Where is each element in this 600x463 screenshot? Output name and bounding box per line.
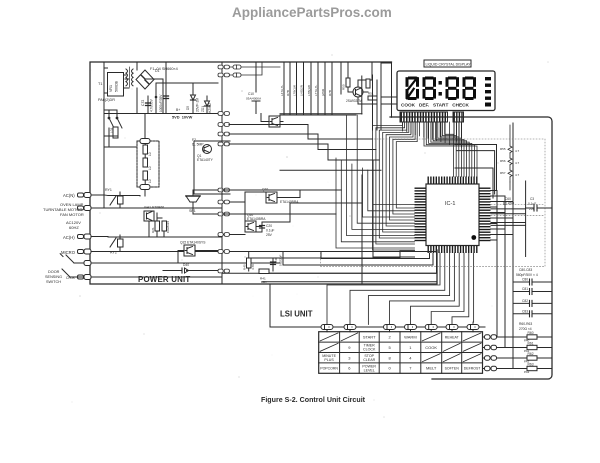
svg-text:2SA933TM: 2SA933TM: [346, 99, 362, 103]
wire mid rail2: [280, 62, 341, 94]
wire relay RY1 row: [116, 196, 140, 209]
capacitor C60 snubber: [118, 192, 124, 208]
dashed panel boundary: [321, 139, 546, 266]
connector matrix row 1: [483, 345, 514, 349]
diode D71: [344, 325, 356, 330]
buzzer SP1: [186, 196, 200, 208]
svg-text:POPCORN: POPCORN: [320, 367, 338, 371]
svg-text:C81: C81: [522, 287, 528, 291]
resistor R61: [513, 345, 552, 349]
svg-text:LIQUID CRYSTAL DISPLAY: LIQUID CRYSTAL DISPLAY: [426, 63, 472, 67]
transistor Q1 ETA140TY: [203, 145, 212, 154]
wire diode to matrix: [430, 330, 432, 332]
transformer T1 windings: [126, 67, 133, 87]
LCD pin header: [400, 112, 448, 122]
svg-text:20V/F-2M: 20V/F-2M: [196, 98, 200, 112]
label OVEN LAMP TURNTABLE MOTOR FAN MOTOR: [43, 202, 84, 217]
node B+: [176, 108, 180, 112]
label DOOR SENSING SWITCH: [45, 270, 62, 284]
svg-text:PA0: PA0: [524, 339, 530, 343]
svg-text:500ΩB: 500ΩB: [115, 80, 119, 92]
svg-text:C62/R22: C62/R22: [166, 221, 170, 233]
resistor R13: [143, 171, 148, 187]
svg-text:C72: C72: [141, 100, 145, 106]
wire transistor cluster top: [348, 62, 377, 115]
svg-text:560pF/50V × 4: 560pF/50V × 4: [516, 273, 538, 277]
label CH-B: [66, 276, 75, 280]
svg-text:5VD 10VW: 5VD 10VW: [172, 115, 193, 120]
resistor R12: [143, 158, 148, 167]
diode D40: [182, 268, 189, 273]
LCD drive resistor column: [280, 62, 332, 115]
wire collector vertical: [491, 181, 526, 257]
transistor Q10 ETA140BRA: [266, 192, 277, 203]
wire right bus verticals: [497, 123, 513, 369]
wire IC bottom left links: [269, 252, 437, 273]
matrix diode row wire: [270, 326, 485, 328]
svg-text:R56: R56: [500, 159, 506, 163]
svg-text:4.7u/35V: 4.7u/35V: [150, 98, 154, 112]
svg-text:R57: R57: [500, 171, 506, 175]
svg-text:L7B(1W: L7B(1W: [307, 85, 311, 96]
bridge rectifier D1: [136, 70, 154, 89]
connector matrix row 3: [483, 366, 514, 370]
label VR1 500ohm: [109, 80, 119, 92]
label MICRO: [61, 250, 76, 255]
capacitor C80: [513, 279, 552, 285]
label PA0-PA3 ports: [524, 339, 530, 375]
transistor Q20 ETA140BRA: [245, 221, 256, 232]
transistor Q50 2SA933TM: [353, 87, 363, 97]
wire cluster to LCD: [381, 63, 397, 104]
svg-text:4.7K: 4.7K: [251, 263, 255, 270]
power unit frame: [90, 62, 437, 284]
relay box RY: [194, 141, 230, 194]
resistor chain R55-R57: [508, 125, 512, 190]
IC-1 pin1 dot: [471, 235, 476, 240]
diode D73: [405, 325, 417, 330]
transformer T1 box VR1: [108, 73, 124, 97]
resistor R52: [366, 79, 370, 88]
svg-text:F1–04 SH660×4: F1–04 SH660×4: [150, 67, 178, 71]
svg-text:L7TA,7L: L7TA,7L: [314, 85, 318, 96]
capacitor C3 symbol: [526, 205, 552, 211]
svg-text:R55: R55: [500, 147, 506, 151]
LCD display module: [397, 71, 495, 111]
svg-text:R7B: R7B: [328, 90, 332, 96]
svg-text:LHG(2N: LHG(2N: [299, 85, 303, 96]
resistor array box: [137, 141, 159, 187]
keyboard matrix table: [319, 332, 483, 374]
wire comb2 down: [454, 122, 462, 147]
wire 5V rail: [104, 113, 222, 115]
wire long horizontals lower left: [222, 190, 341, 214]
svg-text:L7B(1W: L7B(1W: [292, 85, 296, 96]
svg-text:R60-R63: R60-R63: [519, 322, 532, 326]
relay RY2: [110, 251, 117, 255]
svg-text:AC(H): AC(H): [63, 235, 75, 240]
wire array bottom: [144, 114, 146, 197]
wire Q10 connections: [222, 190, 300, 221]
svg-text:AC(N): AC(N): [63, 193, 75, 198]
svg-text:C60: C60: [505, 197, 511, 201]
LSI unit right frame: [390, 117, 552, 379]
resistor R40 4.7k: [247, 258, 252, 268]
wire switch leads: [104, 110, 148, 147]
svg-text:L4TA,7L: L4TA,7L: [280, 85, 284, 96]
connector top of array: [140, 139, 150, 190]
svg-text:MICRO: MICRO: [61, 250, 76, 255]
wire bridge to rails: [125, 62, 163, 114]
wire diode to matrix: [472, 330, 474, 332]
svg-text:LEVEL: LEVEL: [364, 369, 375, 373]
scan noise speckles: [71, 54, 548, 417]
wire door row: [91, 263, 280, 277]
label D1: [155, 69, 160, 73]
svg-text:CLEAR: CLEAR: [363, 358, 375, 362]
wire mid rail: [222, 62, 356, 115]
svg-text:E0.45M: E0.45M: [503, 202, 514, 206]
svg-text:PLUS: PLUS: [324, 358, 334, 362]
svg-text:T1: T1: [98, 82, 102, 86]
svg-text:CLOCK: CLOCK: [363, 348, 376, 352]
svg-text:4.7: 4.7: [515, 149, 520, 153]
svg-text:Figure S-2. Control Unit Circu: Figure S-2. Control Unit Circuit: [261, 396, 366, 404]
diode D75: [446, 325, 458, 330]
svg-text:MELT: MELT: [426, 366, 437, 371]
transistor Q22 ETA140SYS: [184, 245, 195, 256]
IC-1 right pins: [479, 188, 491, 242]
svg-text:D5: D5: [186, 106, 190, 110]
svg-text:B+: B+: [176, 108, 180, 112]
capacitor C73 4.7u/35V: [155, 83, 157, 114]
label F1-04 SH660x4: [150, 67, 178, 71]
fuse F2 label: [192, 138, 204, 147]
connector matrix row 2: [483, 356, 514, 360]
IC-1 left pins: [415, 188, 427, 242]
resistor R22: [162, 221, 167, 231]
svg-text:25V: 25V: [266, 233, 273, 237]
wire bus connector to LSI crossing: [229, 125, 381, 171]
svg-text:SENSING: SENSING: [45, 275, 62, 279]
svg-text:60HZ: 60HZ: [69, 225, 79, 230]
svg-text:GH1 ST0B66: GH1 ST0B66: [144, 206, 164, 210]
wire bus IC right: [491, 191, 514, 241]
wire diode to matrix: [349, 330, 351, 332]
LCD digit 3: [446, 77, 460, 101]
resistor R62: [513, 356, 552, 360]
wire Q22 connections: [163, 251, 222, 271]
resistor R60: [513, 335, 552, 339]
connector CN-A column: [218, 62, 229, 284]
svg-text:0.1uF: 0.1uF: [266, 229, 274, 233]
svg-text:L01: L01: [110, 127, 114, 133]
svg-text:C80-C83: C80-C83: [519, 268, 532, 272]
wire bus LCD right group: [424, 122, 477, 177]
svg-text:L0: L0: [148, 179, 152, 183]
wire AC(H) row: [91, 236, 222, 239]
wire top verticals to bundle: [280, 63, 381, 130]
svg-text:ETA140BRA: ETA140BRA: [247, 217, 266, 221]
label LIQUID CRYSTAL DISPLAY: [424, 60, 471, 67]
wire transistor cluster: [149, 213, 164, 237]
wire transformer primary: [104, 62, 129, 193]
capacitor C3: [528, 197, 536, 211]
svg-text:LSI UNIT: LSI UNIT: [280, 310, 313, 319]
node AC(N) terminal: [78, 193, 92, 198]
diode D74: [425, 325, 437, 330]
label AC(N): [63, 193, 75, 198]
wire Q20 connections: [222, 203, 290, 235]
label T1 PA6(2)DR: [98, 82, 115, 102]
diode D60: [229, 65, 280, 69]
wire lamp row: [91, 207, 104, 209]
svg-text:DEFROST: DEFROST: [464, 367, 482, 371]
LCD pin header 2: [453, 112, 464, 122]
connector matrix row 0: [483, 335, 514, 339]
node door switch terminal 2: [78, 275, 92, 280]
zener ZD1 HZ9B2: [205, 96, 210, 114]
svg-text:C82: C82: [522, 299, 528, 303]
svg-text:0.022uF: 0.022uF: [279, 255, 283, 266]
wire AC(N) row: [91, 193, 222, 208]
wire buzzer: [193, 190, 222, 214]
wire diode to matrix: [451, 330, 453, 332]
svg-text:R50: R50: [342, 84, 346, 90]
LCD digit 4: [463, 77, 477, 101]
capacitor C82: [513, 300, 552, 306]
svg-text:D40: D40: [183, 263, 189, 267]
wire bus power to LSI: [283, 190, 437, 284]
svg-text:SWITCH: SWITCH: [46, 280, 61, 284]
svg-text:IC-1: IC-1: [445, 201, 455, 207]
wire strong verticals: [262, 160, 437, 284]
svg-text:SOFTEN: SOFTEN: [445, 367, 460, 371]
capacitor C61 snubber: [118, 235, 124, 251]
resistor R63: [513, 366, 552, 370]
resistor R51: [368, 96, 377, 100]
capacitor C40: [271, 258, 276, 268]
capacitor C83: [513, 311, 552, 317]
resistor R11: [143, 141, 148, 158]
switch door sensing: [60, 254, 84, 278]
wire bus to IC left pins: [336, 115, 415, 248]
LCD annunciator squares: [485, 77, 491, 107]
IC-1 label: [445, 201, 455, 207]
wire bus LCD left loop: [373, 122, 418, 250]
diode D5: [191, 83, 196, 114]
svg-text:R7B: R7B: [286, 90, 290, 96]
capacitor C72: [146, 96, 151, 114]
svg-text:REHEAT: REHEAT: [445, 336, 460, 340]
wire diode to matrix: [389, 330, 391, 332]
node MICRO terminal: [78, 249, 92, 254]
svg-text:1000uF/35V: 1000uF/35V: [159, 94, 163, 112]
transistor Q2 ST0B66: [144, 206, 164, 210]
wire bus IC to matrix staircase: [327, 253, 474, 325]
resistor R50: [346, 78, 350, 87]
svg-text:R40: R40: [243, 264, 247, 270]
caption Figure S-2: [261, 396, 366, 404]
wire right bus bottom: [432, 337, 505, 379]
IC-1 microcontroller body: [426, 184, 479, 246]
node door switch terminal 1: [84, 261, 91, 266]
svg-text:VR1: VR1: [109, 85, 113, 92]
relay RY1: [105, 188, 112, 192]
IC-1 top pins: [428, 177, 478, 185]
capacitor C60: [503, 197, 514, 206]
wire Q3 links: [252, 62, 283, 122]
capacitor C20: [260, 222, 265, 232]
diode D61: [229, 62, 262, 77]
IC-1 bottom pins: [428, 246, 478, 254]
svg-text:L0: L0: [148, 152, 152, 156]
capacitor C74 1000uF/35V: [164, 83, 169, 114]
label AC(H): [63, 235, 75, 240]
svg-text:HZ9B2: HZ9B2: [208, 103, 212, 113]
svg-text:COOK: COOK: [425, 345, 437, 350]
svg-text:POWER UNIT: POWER UNIT: [138, 275, 190, 284]
wire bus LCD to IC vertical: [403, 122, 450, 144]
transistor Q3: [269, 116, 280, 127]
wire diode to matrix: [326, 330, 328, 332]
svg-text:ZD1: ZD1: [201, 106, 205, 112]
capacitor C81: [513, 289, 552, 295]
svg-text:R60: R60: [528, 331, 534, 335]
label POWER UNIT: [138, 275, 190, 284]
switch S1 S2 interlock: [108, 110, 122, 136]
capacitor C10: [246, 92, 261, 101]
resistor L01: [113, 127, 118, 138]
keyboard matrix cell texts and diagonals: [320, 333, 481, 373]
svg-text:PA6(2)DR: PA6(2)DR: [98, 98, 115, 102]
LCD digit 2: [423, 77, 437, 101]
resistor R41 10k: [259, 269, 269, 274]
svg-text:SP1: SP1: [189, 209, 196, 213]
watermark AppliancePartsPros.com: [232, 5, 392, 20]
svg-text:START: START: [363, 335, 376, 340]
label C80-C83: [516, 268, 538, 277]
diode D72: [384, 325, 396, 330]
wire top right drop: [391, 62, 393, 117]
resistor R21: [155, 221, 160, 231]
svg-text:PA1: PA1: [524, 349, 530, 353]
node AC(H) terminal: [78, 234, 92, 239]
svg-text:4.7: 4.7: [515, 161, 520, 165]
svg-text:L0: L0: [148, 166, 152, 170]
svg-text:C3: C3: [530, 197, 534, 201]
svg-text:Q22 ETA140SYS: Q22 ETA140SYS: [180, 241, 206, 245]
wire micro row: [91, 251, 437, 253]
wire top rail to caps: [137, 62, 222, 83]
svg-text:FAN MOTOR: FAN MOTOR: [60, 212, 84, 217]
svg-text:ETA140TY: ETA140TY: [197, 158, 214, 162]
svg-text:03A/400KA: 03A/400KA: [246, 97, 261, 101]
svg-text:COOK DEF. START CHECK: COOK DEF. START CHECK: [401, 103, 469, 108]
svg-text:0.1uF: 0.1uF: [528, 202, 536, 206]
LCD legend COOK DEF START CHECK: [401, 103, 469, 108]
svg-text:C10: C10: [248, 92, 254, 96]
svg-text:PA3: PA3: [524, 370, 530, 374]
svg-text:R21: R21: [151, 227, 155, 233]
LCD digit 1: [406, 77, 420, 101]
svg-text:PA2: PA2: [524, 360, 530, 364]
wire wrap around IC right: [455, 145, 497, 199]
svg-text:4.7: 4.7: [515, 173, 520, 177]
svg-text:DOOR: DOOR: [48, 270, 60, 274]
node lamp terminal: [78, 206, 92, 211]
svg-text:AppliancePartsPros.com: AppliancePartsPros.com: [232, 5, 392, 20]
svg-text:C80: C80: [522, 278, 528, 282]
svg-text:C83: C83: [522, 309, 528, 313]
wire diode to matrix: [410, 330, 412, 332]
svg-text:WARM: WARM: [404, 335, 417, 340]
svg-text:C20: C20: [266, 224, 272, 228]
diode D76: [467, 325, 479, 330]
LSI unit frame: [270, 284, 319, 327]
svg-text:RY1: RY1: [105, 188, 112, 192]
diode D70: [321, 325, 333, 330]
svg-text:(2NΩ: (2NΩ: [321, 88, 325, 96]
label LSI UNIT: [280, 310, 313, 319]
label R60-R63: [519, 322, 532, 331]
wire bottom group: [222, 252, 437, 274]
LCD colon: [439, 81, 442, 96]
label AC120V 60HZ: [66, 220, 81, 230]
label 5VD 10VW: [172, 115, 193, 120]
